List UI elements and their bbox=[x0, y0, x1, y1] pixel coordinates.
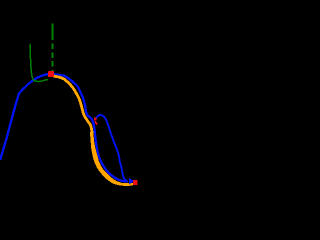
red tail at dot 2 bbox=[95, 122, 97, 124]
blue function curve bbox=[1, 74, 128, 181]
blue swoosh arc with arrowhead bbox=[96, 115, 126, 181]
blue arrowhead bbox=[129, 178, 134, 185]
red dot 3 (end) bbox=[133, 180, 138, 185]
red dot 2 (mid) bbox=[94, 117, 97, 120]
orange arc thick lower band bbox=[91, 133, 122, 185]
orange curve bbox=[51, 75, 132, 184]
green dashed vertical line bbox=[52, 24, 54, 41]
red dot 1 (crest) bbox=[48, 71, 54, 77]
green solid curve bbox=[30, 44, 47, 82]
